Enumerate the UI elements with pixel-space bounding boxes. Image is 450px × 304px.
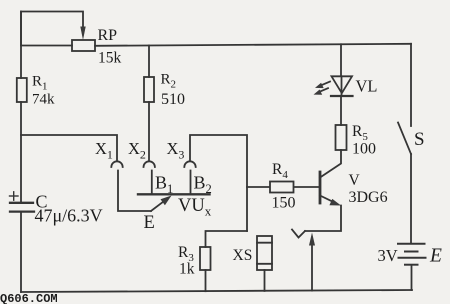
wire VL to R5 (340, 96, 342, 125)
svg-text:X2: X2 (128, 139, 146, 162)
svg-text:100: 100 (352, 141, 376, 158)
pin B1 of VU (151, 171, 153, 195)
wire left rail to RP (21, 45, 72, 47)
wire left rail to X1 (21, 135, 117, 161)
resistor R3 (200, 247, 211, 270)
wire left rail upper (20, 12, 22, 79)
connector X2 socket arc (144, 161, 155, 167)
pin B2 of VU (190, 171, 192, 195)
wire XS to bottom rail (264, 270, 266, 291)
wire left rail middle (20, 102, 22, 202)
svg-text:74k: 74k (32, 92, 55, 108)
wire switch to battery (410, 154, 412, 244)
LED VL light arrow 1 (321, 82, 330, 86)
svg-text:R1: R1 (32, 74, 48, 93)
LED VL triangle (332, 76, 353, 93)
battery E plates (398, 243, 425, 245)
emitter E arrow into VU bar (151, 200, 166, 211)
wire battery to bottom rail (411, 265, 413, 290)
svg-text:15k: 15k (98, 50, 122, 67)
wire R2 top (148, 46, 150, 78)
svg-text:E: E (144, 213, 155, 233)
wire switch upper (410, 44, 412, 126)
transistor V bar (319, 172, 322, 203)
potentiometer RP wiper arrow (80, 27, 85, 41)
svg-text:3V: 3V (378, 246, 398, 265)
svg-text:1k: 1k (179, 261, 195, 278)
wire X3 up and over to node column (190, 135, 247, 231)
transistor V collector (320, 150, 341, 178)
svg-text:R4: R4 (272, 161, 288, 181)
resistor R4 (270, 182, 294, 193)
socket XS body (257, 236, 272, 270)
LED VL cathode bar (331, 95, 353, 97)
wire emitter down and left (305, 206, 341, 232)
svg-text:B1: B1 (155, 173, 173, 197)
probe arrow from bottom rail (311, 245, 313, 291)
svg-text:S: S (414, 129, 425, 150)
svg-text:E: E (429, 246, 442, 267)
wire X1 down to E elbow (118, 171, 151, 212)
potentiometer RP body (72, 40, 95, 51)
wire R2 to X2 (148, 102, 150, 161)
transistor V emitter with arrow (320, 196, 335, 203)
wire node to R4 (247, 186, 269, 188)
svg-text:B2: B2 (194, 173, 212, 197)
switch S blade (398, 123, 411, 155)
capacitor C plus sign (10, 192, 19, 200)
svg-text:X1: X1 (95, 139, 113, 162)
svg-text:VUx: VUx (178, 196, 212, 219)
wire left rail lower (20, 212, 22, 292)
resistor R1 (17, 78, 27, 102)
device VU body bar (138, 193, 210, 195)
wire bottom rail (21, 290, 412, 292)
wire R4 to transistor base (294, 186, 319, 188)
svg-text:RP: RP (98, 27, 118, 44)
wire node down to R3 (206, 231, 248, 247)
capacitor C plates (10, 202, 33, 204)
svg-text:47μ/6.3V: 47μ/6.3V (35, 206, 103, 226)
probe hook on emitter wire (292, 230, 305, 238)
wire top loop from left rail to RP wiper (21, 12, 83, 46)
resistor R2 (144, 77, 154, 102)
LED VL light arrow 2 (319, 88, 328, 92)
svg-text:Q606.COM: Q606.COM (0, 292, 58, 304)
connector X1 socket arc (111, 161, 122, 167)
svg-text:3DG6: 3DG6 (349, 189, 388, 206)
svg-text:XS: XS (233, 247, 253, 264)
svg-text:X3: X3 (167, 139, 185, 162)
connector X3 socket arc (184, 161, 195, 167)
svg-text:150: 150 (272, 195, 296, 212)
wire top rail RP to switch corner (95, 44, 411, 46)
svg-text:V: V (349, 172, 361, 189)
svg-text:510: 510 (161, 91, 185, 108)
wire VL top (340, 44, 342, 76)
resistor R5 (336, 125, 347, 150)
svg-text:R2: R2 (161, 72, 177, 91)
wire R3 to bottom rail (205, 270, 207, 291)
svg-text:VL: VL (356, 77, 378, 96)
